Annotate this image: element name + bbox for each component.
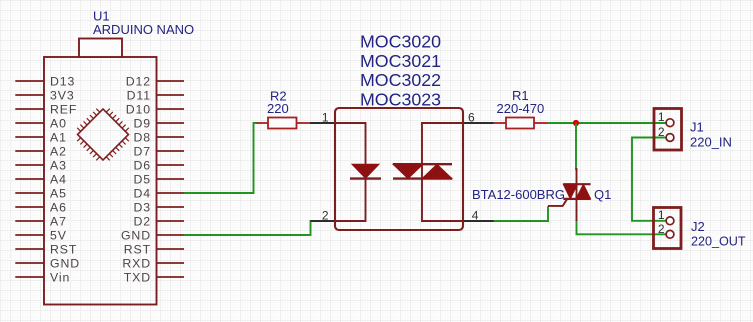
svg-text:RST: RST <box>124 242 151 256</box>
svg-text:220: 220 <box>267 101 289 116</box>
svg-text:GND: GND <box>121 228 151 242</box>
svg-text:J2: J2 <box>691 219 705 234</box>
svg-text:RST: RST <box>50 242 77 256</box>
opto LED triangle <box>352 164 379 178</box>
svg-text:J1: J1 <box>690 120 704 135</box>
opto pin 4 line <box>463 220 494 222</box>
svg-text:A2: A2 <box>50 144 67 158</box>
svg-text:A6: A6 <box>50 200 67 214</box>
svg-text:D11: D11 <box>127 88 151 102</box>
svg-text:A7: A7 <box>50 214 67 228</box>
svg-text:5V: 5V <box>50 228 67 242</box>
wire opto pin4 to Q1 gate <box>494 206 549 221</box>
resistor R2 body <box>268 118 297 129</box>
svg-text:220_IN: 220_IN <box>690 134 732 149</box>
svg-text:Vin: Vin <box>50 270 70 284</box>
opto triac left triangle <box>393 164 423 178</box>
svg-text:D7: D7 <box>133 144 151 158</box>
svg-text:D13: D13 <box>50 74 75 88</box>
svg-text:6: 6 <box>468 111 475 125</box>
svg-text:TXD: TXD <box>124 270 151 284</box>
svg-text:D10: D10 <box>126 102 151 116</box>
Q1 bottom bar <box>563 198 590 200</box>
opto pin 6 line <box>463 122 494 124</box>
svg-text:D2: D2 <box>133 214 151 228</box>
svg-text:1: 1 <box>322 111 329 125</box>
resistor R1 left stub <box>494 122 507 124</box>
svg-text:A5: A5 <box>50 186 67 200</box>
junction node dot <box>573 120 579 126</box>
resistor R2 right stub <box>297 122 311 124</box>
opto triac through lead <box>422 123 463 221</box>
Q1 MT2-MT1 lead <box>576 168 578 221</box>
svg-text:1: 1 <box>658 110 665 124</box>
wire junction down to Q1 MT2 <box>575 123 577 170</box>
svg-text:A1: A1 <box>50 130 67 144</box>
U1 right pin stubs <box>157 81 185 277</box>
svg-text:MOC3020: MOC3020 <box>360 32 441 52</box>
svg-text:MOC3022: MOC3022 <box>360 70 441 90</box>
wire R1 to junction and J1 pin1 (net 220 live) <box>548 122 666 124</box>
svg-text:REF: REF <box>50 102 77 116</box>
opto pin 2 line <box>311 220 336 222</box>
svg-text:D12: D12 <box>126 74 151 88</box>
Q1 right triangle <box>576 184 591 199</box>
wire Q1 MT1 to J2 pin2 <box>577 219 667 234</box>
svg-text:220-470: 220-470 <box>497 101 545 116</box>
Q1 top bar <box>563 183 590 185</box>
Q1 left triangle <box>563 184 577 199</box>
svg-text:A3: A3 <box>50 158 67 172</box>
J1 pin1 circle <box>666 119 674 127</box>
svg-text:RXD: RXD <box>122 256 151 270</box>
U1 left pin stubs <box>15 81 44 277</box>
U1 QFP diamond glyph <box>70 102 135 167</box>
J2 body box <box>654 208 682 249</box>
Q1 gate lead <box>548 198 568 206</box>
resistor R1 right stub <box>534 122 549 124</box>
opto body box <box>335 108 463 230</box>
svg-text:A4: A4 <box>50 172 67 186</box>
svg-text:4: 4 <box>472 209 479 223</box>
U1 right pin names <box>121 74 151 284</box>
svg-text:ARDUINO NANO: ARDUINO NANO <box>93 22 194 37</box>
opto triac top bar <box>393 163 452 165</box>
svg-text:A0: A0 <box>50 116 67 130</box>
resistor R1 body <box>506 118 534 129</box>
svg-text:D6: D6 <box>133 158 151 172</box>
svg-text:BTA12-600BRG: BTA12-600BRG <box>472 187 565 202</box>
J1 pin2 circle <box>666 134 674 142</box>
U1 body box <box>44 57 157 305</box>
svg-text:2: 2 <box>658 222 665 236</box>
J1 body box <box>654 109 682 151</box>
svg-text:220_OUT: 220_OUT <box>691 235 746 249</box>
svg-text:Q1: Q1 <box>594 187 611 202</box>
svg-text:D5: D5 <box>133 172 151 186</box>
svg-text:D9: D9 <box>133 116 151 130</box>
opto pin 1 line <box>310 122 335 124</box>
U1 left pin names <box>50 74 80 284</box>
opto triac right triangle <box>422 164 452 178</box>
opto triac bottom bar <box>393 177 452 179</box>
svg-text:3V3: 3V3 <box>50 88 75 102</box>
svg-text:1: 1 <box>658 208 665 222</box>
opto LED cathode bar <box>350 177 381 179</box>
opto LED anode lead <box>335 123 366 221</box>
wire J1 pin2 to J2 pin1 <box>632 138 666 221</box>
svg-text:GND: GND <box>50 256 80 270</box>
svg-text:D3: D3 <box>133 200 151 214</box>
wire GND to opto pin2 (net GND) <box>184 221 312 235</box>
resistor R2 left stub <box>257 122 269 124</box>
J2 pin1 circle <box>666 217 674 225</box>
svg-text:D8: D8 <box>133 130 151 144</box>
wire D4 to R2 (net D4) <box>184 123 258 193</box>
svg-text:2: 2 <box>658 125 665 139</box>
svg-text:MOC3021: MOC3021 <box>360 51 441 71</box>
svg-text:MOC3023: MOC3023 <box>360 89 441 109</box>
J2 pin2 circle <box>666 230 674 238</box>
svg-text:2: 2 <box>322 209 329 223</box>
svg-text:D4: D4 <box>133 186 151 200</box>
U1 usb notch <box>79 39 122 58</box>
